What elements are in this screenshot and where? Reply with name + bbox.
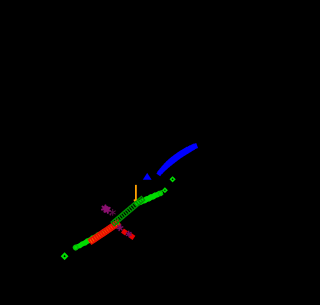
wire: blue comet marker strip xyxy=(156,143,198,176)
node: green circle marker (left tip) xyxy=(74,245,78,249)
node: red filled square marker D xyxy=(128,233,135,240)
node: blue triangle marker xyxy=(143,173,152,180)
node: purple star marker C xyxy=(126,231,131,236)
wire: orange-red overlay line xyxy=(91,226,115,241)
node: purple star marker A xyxy=(117,225,123,231)
node: purple star markers (upper cluster) xyxy=(102,205,115,215)
wire: orange vertical line with foot xyxy=(134,185,136,201)
node D3: green open diamond marker xyxy=(171,177,175,181)
node: red open-square marker chain xyxy=(89,220,121,244)
node D1: green open diamond marker (bottom-left) xyxy=(62,254,67,259)
node D2: green open diamond marker xyxy=(163,188,167,192)
wire: green trajectory line (upper segment) xyxy=(134,190,164,207)
node: green open-square marker chain xyxy=(111,196,145,226)
wire: green trajectory line (lower segment) xyxy=(72,221,119,251)
node: red filled square marker B xyxy=(121,229,128,236)
node: green circle marker (right tip) xyxy=(158,191,162,195)
